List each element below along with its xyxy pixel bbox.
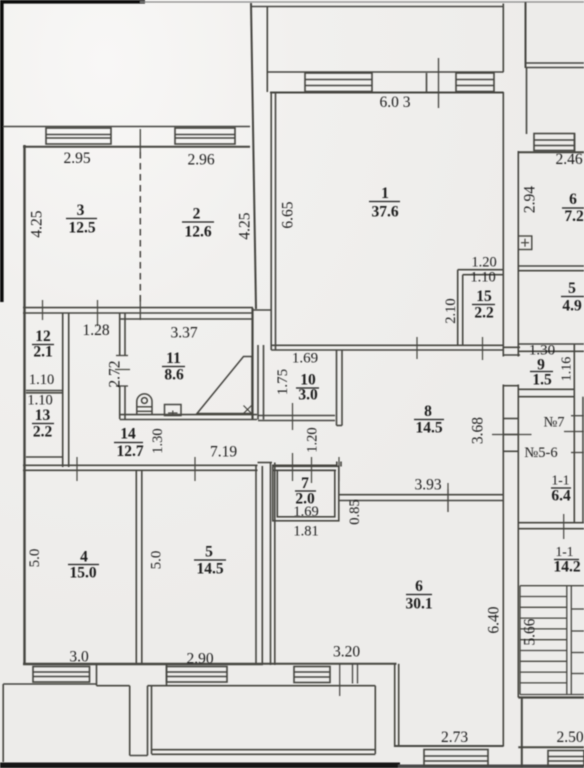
bathroom door jambs <box>116 355 128 357</box>
photo border bottom thin line <box>398 765 584 768</box>
right room 6 north wall <box>518 151 584 153</box>
rooms 4/5 south wall <box>23 663 263 665</box>
svg-text:12: 12 <box>35 328 51 345</box>
svg-text:№5-6: №5-6 <box>524 445 557 461</box>
svg-text:6: 6 <box>569 191 577 208</box>
cross lines on corridor wall <box>503 385 518 387</box>
svg-text:5.0: 5.0 <box>149 551 165 570</box>
corridor east wall line (x518.5) <box>517 151 519 357</box>
balcony left wall <box>266 7 268 93</box>
balcony parapet / room1 north wall outer line <box>267 71 503 73</box>
svg-text:1.16: 1.16 <box>560 357 575 382</box>
right apartment top wall vertical <box>525 2 527 68</box>
dim ticks x292 <box>292 403 294 430</box>
room 10 east wall (double) <box>336 350 338 426</box>
right apartment north wall (double) <box>526 62 584 64</box>
room 5 label <box>196 544 223 578</box>
room 6 label <box>405 578 432 613</box>
outer north wall line of rooms 2-3 <box>3 126 250 128</box>
svg-text:4.25: 4.25 <box>29 210 46 237</box>
balcony top edge (room 1 balcony) <box>251 6 503 8</box>
window W10 (bottom right) <box>548 751 584 766</box>
landing wall (double) below 1-1 6.4 <box>518 522 584 524</box>
balcony door jamb <box>426 73 428 92</box>
svg-text:1: 1 <box>381 185 389 202</box>
stair east wall (double with stubs) <box>573 344 575 523</box>
svg-text:14.5: 14.5 <box>415 420 442 437</box>
tick at top of divider <box>139 129 141 152</box>
svg-text:4.9: 4.9 <box>562 298 582 315</box>
svg-text:12.7: 12.7 <box>116 443 143 460</box>
room 12 label <box>33 328 52 361</box>
svg-text:8.6: 8.6 <box>164 367 184 384</box>
room 11 label <box>164 350 184 384</box>
room 13 label <box>33 407 53 441</box>
wall between right rooms 6 and 5 (double) <box>518 265 584 267</box>
svg-text:2.1: 2.1 <box>33 344 52 361</box>
window W7 (room 6 west section) <box>294 667 330 683</box>
svg-text:3.0: 3.0 <box>69 649 89 666</box>
room 4 label <box>69 549 96 582</box>
room 10 label <box>298 372 318 404</box>
svg-text:0.85: 0.85 <box>347 499 363 524</box>
pier stem <box>129 686 131 756</box>
room 12 bottom shelf line <box>26 390 63 392</box>
room 14 label <box>116 426 143 461</box>
right room 5 label <box>562 280 582 315</box>
svg-text:11: 11 <box>166 350 181 367</box>
room 13 top line <box>26 392 63 394</box>
north wall of rooms 3 and 2 <box>23 146 250 148</box>
dim tick on room6 lower area <box>447 489 449 512</box>
svg-text:1.81: 1.81 <box>293 524 318 540</box>
svg-text:1.75: 1.75 <box>275 369 291 395</box>
loggia pier T (wide part) <box>96 665 98 686</box>
svg-text:12.5: 12.5 <box>68 220 95 237</box>
rooms 12/13 east wall (double) <box>62 313 64 467</box>
photo border bottom band <box>0 763 400 768</box>
svg-text:1.69: 1.69 <box>293 504 318 520</box>
room 9 label <box>532 357 552 389</box>
stove symbol box <box>518 236 532 250</box>
svg-text:2.95: 2.95 <box>63 150 90 167</box>
window W8 (room 6 south) <box>424 750 488 766</box>
wall below rooms 3-2 (double) <box>23 307 253 309</box>
svg-text:3.93: 3.93 <box>414 477 441 494</box>
svg-text:5.66: 5.66 <box>522 618 539 645</box>
ticks on room1 south wall <box>416 337 418 359</box>
wall: east wall of rooms 2-3 block (vertical x251) <box>251 3 256 309</box>
svg-text:1.10: 1.10 <box>29 372 54 388</box>
wall under stairs west <box>521 698 523 768</box>
svg-text:2.2: 2.2 <box>474 305 494 322</box>
svg-text:2.90: 2.90 <box>186 651 213 668</box>
svg-text:1.20: 1.20 <box>471 255 496 271</box>
stair bottom wall <box>518 696 584 698</box>
svg-text:15: 15 <box>476 288 492 305</box>
shower cabin polygon <box>197 357 252 414</box>
room 1 west wall (double) <box>270 92 272 350</box>
shower cross mark <box>244 406 252 414</box>
loggia outline left <box>3 683 96 685</box>
rooms 4/5 divider wall (double) <box>135 470 137 664</box>
svg-text:1.28: 1.28 <box>82 322 109 339</box>
svg-text:13: 13 <box>35 407 51 424</box>
svg-text:1-1: 1-1 <box>556 544 574 559</box>
dimension tick 6.03 <box>438 58 440 108</box>
svg-text:3.37: 3.37 <box>170 325 197 342</box>
svg-text:7: 7 <box>301 475 309 492</box>
svg-text:7.2: 7.2 <box>564 208 584 225</box>
right balcony west edge <box>526 68 528 135</box>
room 15 label <box>474 288 494 322</box>
room 10 / corridor south wall (double) <box>258 415 335 417</box>
room 15 box (double top/left) <box>458 269 503 271</box>
dim tick 3.20 <box>339 663 341 696</box>
window W4 (room 2) <box>175 128 235 144</box>
svg-text:1.20: 1.20 <box>305 427 321 452</box>
room 6 west lower wall (vertical to bottom) <box>394 664 396 747</box>
svg-text:2: 2 <box>193 206 201 223</box>
dim tick 1.20 below room 10 <box>311 457 313 483</box>
photo border left band <box>0 0 4 302</box>
wall cap between rooms5/6 walls <box>258 462 273 464</box>
room 13 bottom line <box>26 456 63 458</box>
wall above right room 9 (double) <box>503 346 520 348</box>
svg-text:8: 8 <box>424 403 432 420</box>
svg-text:1.69: 1.69 <box>292 351 318 367</box>
wall between room 8 and room 6 (3.93, double) <box>339 494 504 496</box>
svg-text:5: 5 <box>568 280 576 297</box>
room 5 east wall (double) <box>255 466 257 664</box>
svg-text:3.68: 3.68 <box>470 417 487 444</box>
svg-text:6.4: 6.4 <box>551 488 571 505</box>
svg-text:1.10: 1.10 <box>470 270 495 286</box>
room 3 label <box>68 202 95 237</box>
svg-text:3.0: 3.0 <box>298 387 318 404</box>
staircase left flight <box>520 586 584 695</box>
toilet <box>137 394 152 415</box>
bathroom north wall lower line <box>120 318 253 320</box>
bottom wall right section <box>518 746 584 748</box>
washbasin <box>165 405 182 416</box>
svg-text:2.46: 2.46 <box>555 151 582 168</box>
right room 6 label <box>564 191 584 225</box>
tick on 3.93 wall <box>447 483 449 512</box>
svg-text:5: 5 <box>205 544 213 561</box>
loggia top edge (below rooms 5-6) <box>167 685 376 687</box>
window W5 (room 4) <box>33 667 90 683</box>
room 8 label <box>415 403 442 437</box>
bathroom west wall (double, with door gap) <box>119 313 121 355</box>
room 6 south-west wall (3.20 section) <box>263 663 397 665</box>
ticks on wall y308 <box>42 300 44 320</box>
west outer wall <box>23 145 25 664</box>
photo border top band <box>0 0 145 4</box>
svg-text:2.50: 2.50 <box>556 729 583 746</box>
room 2 label <box>184 206 211 241</box>
svg-text:6.65: 6.65 <box>280 201 297 228</box>
room 1 north wall inner line <box>270 92 504 94</box>
door jambs room6 to loggia <box>352 664 354 684</box>
room 1 label <box>371 185 398 221</box>
svg-text:2.73: 2.73 <box>441 729 468 746</box>
bathroom east wall <box>251 308 253 419</box>
room 6 south wall <box>395 745 504 747</box>
ticks on hall south wall <box>76 457 78 481</box>
room 1 south wall (double) <box>271 344 503 346</box>
svg-text:6: 6 <box>415 578 423 595</box>
window W9 (right apartment) <box>534 134 575 151</box>
corridor west wall line (x503) <box>502 4 504 73</box>
bathroom south wall (double) <box>120 414 257 416</box>
svg-text:4: 4 <box>80 549 88 566</box>
svg-text:3: 3 <box>77 202 85 219</box>
svg-text:2.2: 2.2 <box>33 424 53 441</box>
svg-text:14: 14 <box>120 426 136 443</box>
svg-text:2.10: 2.10 <box>443 298 459 323</box>
svg-text:2.72: 2.72 <box>107 360 124 387</box>
staircase right flight <box>571 608 584 610</box>
room 7 closet box (double walls) <box>273 466 339 521</box>
svg-text:2.94: 2.94 <box>522 186 539 213</box>
dashed divider between rooms 3 and 2 <box>139 152 141 302</box>
svg-text:14.5: 14.5 <box>196 561 223 578</box>
window W6 (room 5) <box>167 667 228 683</box>
room 9 south wall (double) <box>518 388 575 390</box>
dim line 3.68 crossing corridor wall <box>492 434 532 436</box>
window W3 (room 3) <box>46 128 111 144</box>
tick at bottom of divider <box>139 295 141 320</box>
room 10 west wall (double) <box>257 345 259 420</box>
room 7 label <box>295 475 315 508</box>
svg-text:30.1: 30.1 <box>405 596 432 613</box>
svg-text:6.40: 6.40 <box>486 606 503 633</box>
window W1 in room1 north wall <box>305 73 372 92</box>
svg-text:7.19: 7.19 <box>210 444 237 461</box>
svg-text:2.96: 2.96 <box>187 152 214 169</box>
svg-text:37.6: 37.6 <box>371 204 398 221</box>
svg-text:1.30: 1.30 <box>150 428 166 453</box>
svg-text:1-1: 1-1 <box>552 473 570 488</box>
svg-text:12.6: 12.6 <box>184 224 211 241</box>
svg-text:5.0: 5.0 <box>27 549 43 568</box>
svg-text:1.5: 1.5 <box>532 372 552 389</box>
svg-text:4.25: 4.25 <box>237 212 254 239</box>
svg-text:№7: №7 <box>543 415 564 431</box>
room 6 west wall upper (double) <box>270 463 272 666</box>
svg-text:3.20: 3.20 <box>333 644 360 661</box>
tick on landing wall <box>563 514 565 539</box>
svg-text:14.2: 14.2 <box>553 559 580 576</box>
photo border top thin line <box>140 1 584 3</box>
svg-text:6.0 3: 6.0 3 <box>380 94 411 111</box>
staircase middle stringer <box>566 586 568 695</box>
window W2 in room1 north wall <box>456 73 494 92</box>
main south wall of hall (double) <box>23 464 258 466</box>
svg-text:15.0: 15.0 <box>69 565 96 582</box>
loggia right box <box>151 686 153 754</box>
